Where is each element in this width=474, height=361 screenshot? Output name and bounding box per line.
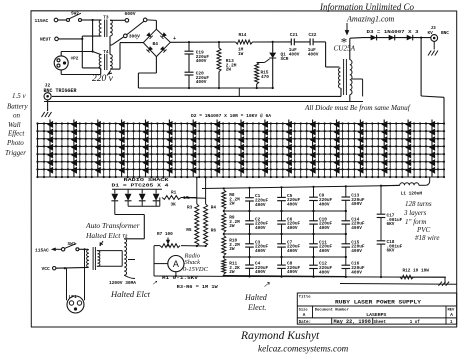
svg-text:A: A <box>173 259 179 269</box>
svg-text:400V: 400V <box>319 270 330 275</box>
svg-text:*: * <box>341 35 348 50</box>
svg-text:R6: R6 <box>211 229 217 234</box>
svg-text:1 of: 1 of <box>410 320 421 325</box>
divider bottom wire <box>196 245 198 247</box>
schematic border frame <box>31 11 457 327</box>
svg-text:T3: T3 <box>103 16 109 21</box>
svg-text:400V: 400V <box>287 249 298 254</box>
bottom rail to border <box>340 283 457 286</box>
wire from D1 bus down <box>159 198 161 207</box>
wire hot vertical <box>92 19 94 21</box>
D1 lower bus 2 <box>127 201 129 206</box>
meter M1 circuit <box>154 245 160 247</box>
ground at J3 <box>433 41 435 49</box>
title block box <box>297 293 456 324</box>
svg-text:115AC: 115AC <box>35 247 49 253</box>
svg-text:D2 = 1N4007 X 10R = 10KV @ 6A: D2 = 1N4007 X 10R = 10KV @ 6A <box>191 114 271 119</box>
svg-text:2W: 2W <box>229 270 235 275</box>
svg-text:Size: Size <box>299 308 309 313</box>
svg-text:400V: 400V <box>196 59 207 64</box>
meter M1 <box>168 256 184 272</box>
capacitor C17 <box>380 186 382 214</box>
capacitor C19 <box>188 42 190 51</box>
diode strings D2 columns <box>49 120 51 178</box>
svg-text:-: - <box>136 36 139 42</box>
svg-text:RUBY LASER POWER SUPPLY: RUBY LASER POWER SUPPLY <box>335 299 422 306</box>
svg-text:R7 100: R7 100 <box>157 232 173 237</box>
trigger bus from J2 <box>52 95 341 97</box>
svg-text:NEUT: NEUT <box>40 37 51 43</box>
svg-text:C21: C21 <box>290 33 298 38</box>
svg-text:D1 = PTC205 X 4: D1 = PTC205 X 4 <box>112 185 170 189</box>
svg-text:400V: 400V <box>196 80 207 85</box>
svg-text:Information Unlimited Co: Information Unlimited Co <box>319 2 414 12</box>
selector common contact <box>143 18 147 22</box>
svg-text:A: A <box>303 313 306 318</box>
wire trigger transformer returns <box>340 88 342 96</box>
matrix right bus <box>443 124 445 178</box>
SCR Q1 <box>272 42 274 53</box>
wire to trigger transformer primary <box>325 42 327 67</box>
selector lever wire <box>127 21 144 34</box>
svg-text:R5: R5 <box>186 228 192 233</box>
svg-text:400V: 400V <box>287 270 298 275</box>
svg-text:400V: 400V <box>319 249 330 254</box>
svg-text:220 v: 220 v <box>92 74 114 84</box>
wire L1 to snubber column <box>381 184 400 186</box>
svg-text:on: on <box>13 112 21 120</box>
svg-text:↗: ↗ <box>263 280 270 289</box>
svg-text:T4: T4 <box>103 50 109 55</box>
cap bank bottom row bus <box>224 276 346 277</box>
svg-text:Title: Title <box>299 294 312 299</box>
svg-text:3 layers: 3 layers <box>403 209 427 217</box>
svg-text:400V: 400V <box>308 53 319 58</box>
svg-text:2W: 2W <box>229 224 235 229</box>
svg-text:Photo: Photo <box>6 139 24 147</box>
resistor R13 <box>218 42 220 48</box>
svg-text:kelcaz.comesystems.com: kelcaz.comesystems.com <box>258 344 349 354</box>
svg-text:L1 120uH: L1 120uH <box>401 191 423 197</box>
plug P2 <box>54 56 68 70</box>
svg-text:1" form: 1" form <box>405 218 426 226</box>
svg-text:400V: 400V <box>255 203 266 208</box>
svg-text:400V: 400V <box>255 226 266 231</box>
svg-text:May 22, 1998: May 22, 1998 <box>334 319 371 325</box>
svg-text:Halted: Halted <box>244 293 268 302</box>
svg-text:Effect: Effect <box>7 130 25 138</box>
svg-text:1W: 1W <box>238 52 244 57</box>
svg-text:#P2: #P2 <box>71 57 79 62</box>
trigger transformer T5 (CU25A) <box>339 68 341 88</box>
bleeder column R8-R11 <box>222 190 226 210</box>
capacitor C20 <box>185 71 194 73</box>
svg-text:400V: 400V <box>351 249 362 254</box>
rectifier D1 top bus <box>112 188 162 190</box>
svg-text:R1: R1 <box>171 191 177 196</box>
wire bridge minus return <box>155 57 157 73</box>
wire to divider tops <box>181 197 206 200</box>
svg-text:Elect.: Elect. <box>247 303 266 312</box>
svg-text:400V: 400V <box>351 226 362 231</box>
matrix thin columns with junction dots <box>43 124 45 178</box>
matrix left bus <box>37 124 39 178</box>
svg-text:Wall: Wall <box>8 121 21 129</box>
wire secondary top to D3 <box>349 38 351 60</box>
svg-text:Raymond Kushyt: Raymond Kushyt <box>240 330 320 342</box>
ground bus long <box>44 101 363 103</box>
wire R12 to ground corner <box>413 276 445 278</box>
matrix bottom bus row with L1 drop <box>38 176 445 178</box>
svg-text:600V: 600V <box>125 11 136 17</box>
svg-text:Battery: Battery <box>7 103 28 111</box>
svg-text:0-15VDC: 0-15VDC <box>183 266 209 273</box>
svg-text:470: 470 <box>261 75 269 80</box>
svg-text:115AC: 115AC <box>35 18 49 24</box>
svg-text:R3: R3 <box>187 206 193 211</box>
svg-text:400V: 400V <box>287 203 298 208</box>
wire common bus A y88 <box>138 87 272 89</box>
svg-text:VCC: VCC <box>42 266 51 272</box>
svg-text:A: A <box>450 313 453 318</box>
svg-text:400V: 400V <box>289 53 300 58</box>
svg-text:R14: R14 <box>239 33 247 38</box>
matrix row lines <box>38 123 445 125</box>
svg-text:400V: 400V <box>319 202 330 207</box>
wire DC+ bus y42 <box>170 41 235 43</box>
svg-text:B4: B4 <box>153 41 159 47</box>
wire HV down to matrix <box>420 38 422 96</box>
svg-text:1M: 1M <box>183 196 189 201</box>
svg-text:Auto Transformer: Auto Transformer <box>85 221 140 230</box>
svg-text:400V: 400V <box>255 249 266 254</box>
ground at J2 <box>47 100 49 111</box>
svg-text:2W: 2W <box>229 202 235 207</box>
D1 lower bus 1 <box>114 201 116 215</box>
capacitor C18 <box>377 240 386 242</box>
svg-text:D3 = 1N4007 X 3: D3 = 1N4007 X 3 <box>367 29 419 35</box>
svg-text:3K: 3K <box>171 203 177 208</box>
svg-text:Sheet: Sheet <box>374 320 387 325</box>
cap bank capacitors C1-C16 <box>249 188 251 198</box>
svg-text:All Diode must Be from same Ma: All Diode must Be from same Manuf <box>304 104 411 112</box>
svg-text:6KV: 6KV <box>387 222 395 227</box>
svg-text:Trigger: Trigger <box>5 149 26 157</box>
trigger transformer mid tap stub <box>352 78 363 80</box>
autotransformer T2 primary <box>87 250 89 268</box>
svg-text:400V: 400V <box>287 226 298 231</box>
svg-text:2W: 2W <box>226 68 232 73</box>
svg-text:6KV: 6KV <box>387 249 395 254</box>
cap bank top bus <box>202 186 400 189</box>
svg-text:LASERPS: LASERPS <box>366 312 386 318</box>
svg-text:R4: R4 <box>211 206 217 211</box>
wire secondary series link <box>109 36 111 54</box>
svg-text:400V: 400V <box>319 226 330 231</box>
svg-text:1200V 30MA: 1200V 30MA <box>109 280 136 286</box>
svg-text:400V: 400V <box>255 270 266 275</box>
wire neutral vertical <box>81 38 83 40</box>
svg-text:128 turns: 128 turns <box>405 200 432 208</box>
cap bank row buses <box>224 210 346 212</box>
SCR gate wire <box>265 59 270 63</box>
svg-text:R3-R6 = 1M 1W: R3-R6 = 1M 1W <box>177 285 218 290</box>
resistor R15 <box>255 63 259 85</box>
svg-text:RADIO SHACK: RADIO SHACK <box>124 179 170 183</box>
meter bottom wire <box>175 272 177 276</box>
svg-text:Document Number: Document Number <box>315 308 349 313</box>
T2 secondary links <box>97 250 122 252</box>
inductor L1 <box>400 183 419 186</box>
svg-text:400V: 400V <box>351 270 362 275</box>
T2 top tap wire <box>124 238 144 240</box>
svg-text:BNC: BNC <box>441 31 449 36</box>
bottom bus meter to caps <box>154 276 446 277</box>
rectifier D1 diodes <box>114 189 116 193</box>
svg-text:Amazing1.com: Amazing1.com <box>346 14 395 23</box>
svg-text:Shack: Shack <box>185 259 201 266</box>
svg-text:#18 wire: #18 wire <box>415 234 439 242</box>
svg-text:1.5 v: 1.5 v <box>12 92 27 100</box>
svg-text:C22: C22 <box>309 33 317 38</box>
T2 bottom tap wire <box>124 275 135 278</box>
wire bridge AC2 from T4 bottom <box>110 68 120 70</box>
svg-text:2W: 2W <box>229 247 235 252</box>
svg-text:M1 0-1.5KV: M1 0-1.5KV <box>162 276 198 281</box>
arrow down annotation <box>346 23 348 33</box>
svg-text:PVC: PVC <box>416 226 431 234</box>
svg-text:R12 10 10W: R12 10 10W <box>403 269 430 274</box>
svg-text:Date:: Date: <box>299 321 312 325</box>
svg-text:Halted Elct: Halted Elct <box>110 289 151 299</box>
T2 mid tap wire <box>128 259 135 261</box>
chassis ground at bottom right <box>439 282 442 286</box>
svg-text:Halted Elct: Halted Elct <box>85 231 121 240</box>
svg-text:400V: 400V <box>351 202 362 207</box>
svg-text:+: + <box>173 36 176 42</box>
svg-text:SCR: SCR <box>281 57 289 62</box>
